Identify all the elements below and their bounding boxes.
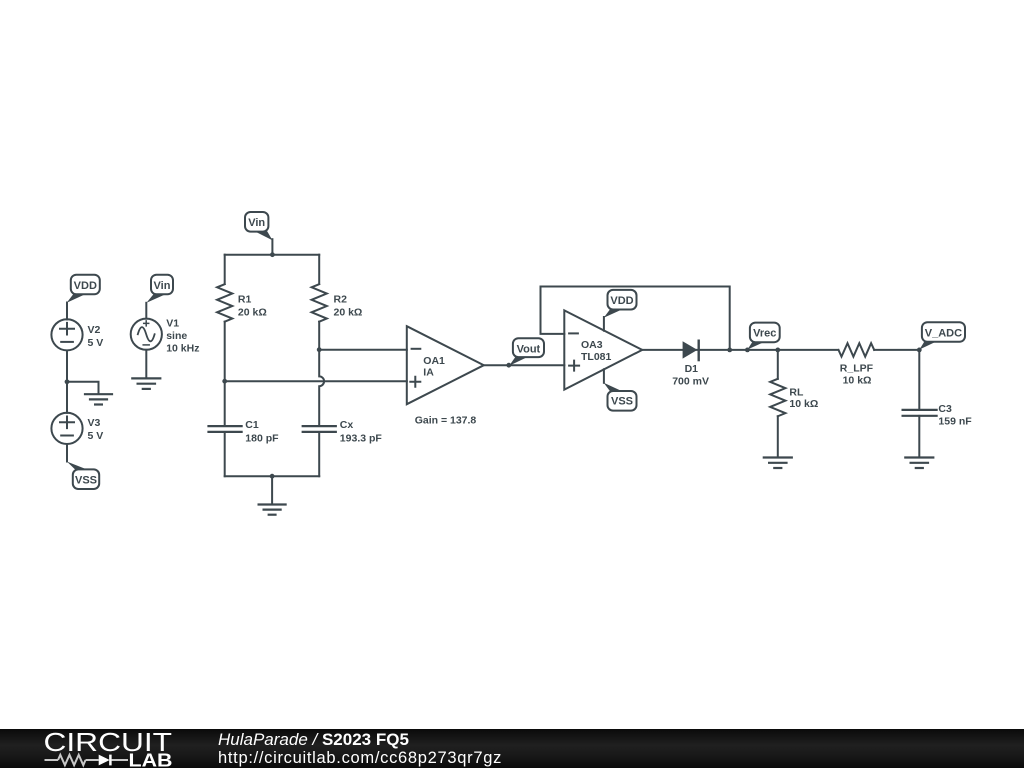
svg-text:V2: V2 (88, 324, 101, 336)
CircuitLab logo (0, 729, 200, 768)
wire RL top lead (777, 350, 779, 379)
footer title text (218, 730, 409, 750)
wire V3 to VSS flag (66, 444, 68, 461)
wire bridge bottom rail (225, 475, 320, 477)
svg-text:C1: C1 (245, 419, 259, 431)
node R1 bottom junction (222, 379, 227, 384)
wire V1 to ground (145, 350, 147, 379)
footer url text (218, 749, 502, 768)
voltage source V2 5V (51, 319, 103, 350)
svg-text:180 pF: 180 pF (245, 432, 279, 444)
resistor RL 10 kOhm (770, 379, 818, 416)
wire top rail to R2 (318, 255, 320, 284)
svg-text:Vin: Vin (248, 217, 265, 229)
wire top rail to R1 (224, 255, 226, 284)
wire Vin flag to V1 (145, 303, 147, 319)
svg-text:VDD: VDD (74, 280, 97, 292)
node feedback junction (727, 348, 732, 353)
node Vin top junction (270, 252, 275, 257)
net flag Vout (509, 338, 544, 366)
svg-text:VSS: VSS (611, 396, 633, 408)
svg-text:LAB: LAB (129, 750, 173, 768)
svg-text:VDD: VDD (610, 295, 633, 307)
svg-text:R_LPF: R_LPF (840, 363, 874, 375)
svg-text:Vrec: Vrec (753, 328, 776, 340)
ground (RL) (764, 458, 792, 469)
svg-text:700 mV: 700 mV (672, 376, 709, 388)
resistor R_LPF 10 kOhm (839, 343, 875, 386)
wire Vin flag to bridge top (271, 239, 273, 255)
svg-text:TL081: TL081 (581, 351, 612, 363)
svg-text:R1: R1 (238, 294, 252, 306)
wire VDD flag to OA3 top (603, 317, 605, 331)
net flag VSS (OA3) (604, 383, 637, 411)
wire junction to ground (67, 382, 99, 394)
svg-text:Gain = 137.8: Gain = 137.8 (415, 415, 477, 427)
svg-text:Vin: Vin (154, 280, 171, 292)
ground (left rail) (85, 394, 112, 404)
wire R2 bottom with hop over horizontal wire to Cx (319, 322, 324, 426)
svg-text:V3: V3 (88, 417, 101, 429)
ground (C3) (905, 458, 933, 469)
net flag V_ADC (920, 322, 966, 349)
voltage source V3 5V (51, 413, 103, 444)
node V_ADC (917, 348, 922, 353)
wire bridge top rail (225, 254, 320, 256)
svg-text:10 kΩ: 10 kΩ (789, 398, 818, 410)
node junction between V2 and V3 (65, 379, 70, 384)
svg-text:RL: RL (789, 387, 804, 399)
svg-text:10 kHz: 10 kHz (166, 343, 199, 355)
resistor R1 20 kOhm (217, 284, 267, 321)
net flag Vin (source V1) (147, 275, 174, 303)
wire C1 to bottom rail (224, 432, 226, 476)
svg-text:D1: D1 (685, 363, 699, 375)
node bottom rail junction (270, 474, 275, 479)
svg-text:VSS: VSS (75, 474, 97, 486)
svg-text:10 kΩ: 10 kΩ (843, 375, 872, 387)
wire C3 top lead (918, 350, 920, 410)
node Vout (506, 363, 511, 368)
svg-text:sine: sine (166, 330, 187, 342)
op-amp OA1 IA (407, 326, 484, 404)
svg-text:V1: V1 (166, 318, 179, 330)
capacitor C3 159 nF (903, 403, 973, 428)
node RL junction (775, 348, 780, 353)
footer bar (0, 729, 1024, 768)
wire bridge bottom-left to op-amp plus input (225, 380, 407, 382)
node Vrec (745, 348, 750, 353)
wire bottom rail to ground (271, 476, 273, 504)
wire feedback loop OA3 minus input to output node (541, 287, 730, 350)
resistor R2 20 kOhm (312, 284, 363, 321)
ground (source V1) (132, 378, 160, 389)
svg-text:20 kΩ: 20 kΩ (334, 307, 363, 319)
svg-text:OA1: OA1 (423, 355, 445, 367)
wire OA1 output to OA3 plus input (484, 364, 565, 366)
net flag Vin (bridge top) (245, 212, 272, 240)
wire Cx to bottom rail (318, 432, 320, 476)
wire R1 bottom through node to C1 (224, 322, 226, 426)
wire V2 to V3 (66, 351, 68, 413)
wire R_LPF to V_ADC node (874, 349, 919, 351)
svg-text:Vout: Vout (517, 343, 541, 355)
ground (bridge) (259, 505, 286, 515)
svg-text:193.3 pF: 193.3 pF (340, 432, 383, 444)
capacitor Cx 193.3 pF (303, 419, 383, 445)
svg-text:R2: R2 (334, 294, 348, 306)
wire OA3 output to R_LPF (642, 349, 838, 351)
svg-text:5 V: 5 V (88, 430, 104, 442)
svg-text:159 nF: 159 nF (938, 416, 972, 428)
svg-text:OA3: OA3 (581, 339, 603, 351)
svg-text:5 V: 5 V (88, 337, 104, 349)
wire RL bottom lead to ground (777, 416, 779, 457)
wire C3 bottom lead to ground (918, 416, 920, 458)
wire R2 node to op-amp minus input (319, 349, 407, 351)
net flag VSS (left rail) (67, 462, 99, 489)
net flag VDD (left rail) (67, 275, 100, 303)
wire VDD flag to V2 (66, 303, 68, 320)
voltage source V1 sine 10 kHz (131, 318, 200, 355)
net flag Vrec (748, 323, 780, 350)
wire VSS flag to OA3 bottom (603, 369, 605, 383)
svg-text:Cx: Cx (340, 419, 354, 431)
svg-text:C3: C3 (938, 403, 952, 415)
node R2 to op-amp minus (317, 347, 322, 352)
svg-text:IA: IA (423, 367, 434, 379)
diode D1 700 mV (672, 341, 709, 388)
op-amp OA3 TL081 (564, 310, 642, 389)
svg-text:20 kΩ: 20 kΩ (238, 307, 267, 319)
svg-text:V_ADC: V_ADC (925, 327, 962, 339)
net flag VDD (OA3) (604, 290, 637, 318)
capacitor C1 180 pF (209, 419, 280, 445)
